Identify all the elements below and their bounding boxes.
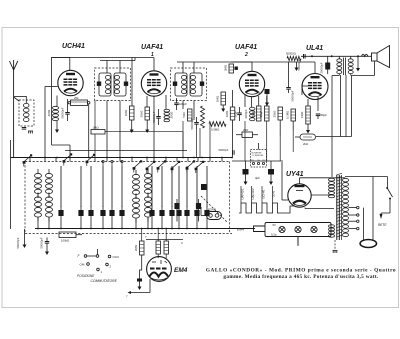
ground arrow UCH41 cathode [56,121,58,130]
power transformer core [336,175,338,240]
svg-text:50Ω: 50Ω [182,112,186,117]
svg-text:UAF41: UAF41 [141,44,163,51]
wire drop 2 [80,166,82,207]
coil L1 lower [35,197,42,201]
trimmer capacitor 11 [184,210,189,216]
AVC partial line [65,150,187,152]
ground arrow UAF41-1 b [146,120,148,130]
band switch contact 9 [195,168,198,171]
resistor box EM4 a [156,241,161,254]
speaker [372,53,378,61]
trimmer capacitor extra a [174,203,179,209]
svg-text:UL41: UL41 [272,190,276,197]
wire UAF41 grid top [135,57,154,59]
svg-text:1MΩ: 1MΩ [216,96,220,102]
power transformer primary upper [329,178,335,181]
band switch contact 3 [86,161,89,164]
band switch contact 6 [157,167,160,170]
output transformer T3 [337,59,342,62]
band switch contact 2 [63,160,66,163]
svg-text:UCH41: UCH41 [62,43,85,50]
lamp 1 [279,226,285,232]
heater tap wires [240,186,242,203]
svg-text:GALLO «CONDOR» - Mod. PRIMO pr: GALLO «CONDOR» - Mod. PRIMO prima e seco… [206,268,396,274]
voice coil [362,54,368,56]
wire cross e [266,121,268,161]
ground arrow UAF41-1 a [131,120,133,130]
svg-text:1MΩ: 1MΩ [124,110,128,116]
wire drop 9 [171,166,173,207]
wire drop 3 [90,166,92,207]
bus stubs [29,158,31,162]
resistor 30k UAF41-1 [145,107,150,120]
trimmer capacitor 12 [194,210,199,216]
wire UY41 plate top [299,178,301,184]
wire UL41 grid [231,61,315,63]
resistor 1M UAF41-1 [130,106,135,120]
trimmer capacitor 4 [100,210,105,216]
resistor box UAF41-2 c [265,106,270,121]
coil 300ohm UCH41 cathode [53,106,59,109]
capacitor 50uF UAF41-2 [237,112,242,114]
wire vertical x332 [331,76,333,178]
svg-text:50µF: 50µF [234,110,238,117]
wire T2 bottom continuation [182,121,184,158]
lamp 2 [295,226,301,232]
wire drop 13 [206,166,208,207]
bus wire y228 [35,228,255,230]
resistor 25k under UCH41 [71,100,88,106]
wire mains switch down [389,199,391,214]
wire fono [201,215,207,217]
svg-text:UAF41: UAF41 [235,44,257,51]
wire T2 tops [177,61,200,63]
heater chain meander [239,203,295,213]
switch pad circle 3 [121,160,123,162]
resistor zigzag 0.5M vertical [201,106,205,128]
coil 300ohm UAF41-1 [164,109,170,112]
switch pad circle 1 [102,160,104,162]
band switch contact 5 [146,168,149,171]
wire lamp down [297,237,299,247]
capacitor 50000pF bus [45,241,50,243]
ground arrow UAF41-2 grid [222,105,224,109]
resistor 140ohm UL41 [306,106,311,124]
wire UCH41 cathode drops [56,96,58,107]
wire cross c [209,124,211,158]
wire EM4 bottom [149,279,151,293]
wire plate HT line [301,55,371,57]
trimmer capacitor 2 [78,210,83,216]
wire drop 1 [60,166,62,207]
mains switch [387,177,389,188]
wire UL41 cathode [307,99,309,106]
switch shaft diagonal [201,196,227,222]
switch shaft dash left [24,162,26,234]
svg-text:gamme. Media frequenza a 465 k: gamme. Media frequenza a 465 kc. Potenza… [223,274,379,280]
wire drop 10 [178,166,180,207]
wire plug right [372,177,374,241]
svg-text:50000pF: 50000pF [291,90,295,101]
wire cross a [94,100,96,158]
tube UY41 [288,184,311,207]
transformer centerline ground [334,240,336,250]
wire grid UAF41-2 [200,61,252,63]
svg-text:2: 2 [244,52,248,58]
wire cross g [292,130,294,152]
resistor 10k horizontal [91,130,105,135]
resistor 2M EM4 [140,241,145,255]
tube UCH41 [58,70,83,95]
resistor 0.5M horizontal [209,122,226,127]
svg-text:300Ω: 300Ω [47,110,51,117]
svg-text:50000pF: 50000pF [152,111,156,122]
antenna filter box [19,100,34,126]
switch shaft dash top [25,161,230,163]
band switch contact 4 [133,167,136,170]
wire drop 6 [121,166,123,207]
svg-text:DI TENSIONE: DI TENSIONE [253,155,265,157]
svg-text:100pF: 100pF [179,102,187,106]
wire horizontal y136 [316,136,352,138]
resistor 1M UAF41-2 grid [221,92,226,105]
coil L2 lower [46,197,53,201]
svg-text:POSIZIONE: POSIZIONE [77,274,95,278]
wire vertical x351 [351,75,353,137]
svg-text:6V: 6V [273,223,277,227]
svg-text:RETE: RETE [378,223,387,227]
ground arrow left bus [24,229,26,245]
power transformer primary lower [329,225,335,228]
resistor 50ohm T2 [188,109,193,121]
ground arrow 8uF [266,94,268,103]
svg-text:25kΩ: 25kΩ [273,111,277,118]
wire top bus UCH41-UAF41 [52,57,136,59]
wire UY41 heater right [311,194,331,196]
trimmer capacitor 1 [58,210,63,216]
junction dots HT [311,55,313,57]
wire vertical left of UCH41 [51,70,53,145]
wire UCH41 left lead [45,86,58,88]
svg-text:0,5MΩ: 0,5MΩ [211,128,219,132]
wire antenna to filter [14,97,19,101]
lamp 3 [311,226,317,232]
IF transformer T2 [171,68,207,101]
wire drop 4 [102,166,104,207]
resistor 100k [59,232,76,238]
trimmer capacitor 6 [119,210,124,216]
capacitor antenna filter [22,127,27,129]
transformer taps [349,207,357,209]
voltage selector box [251,150,267,168]
wire UAF41-1 bottom drops [131,58,133,107]
ground comb antenna filter [28,130,33,132]
wire plug left [363,208,365,240]
svg-text:UY41: UY41 [286,171,304,178]
svg-text:UL41: UL41 [306,45,323,52]
svg-text:OC3: OC3 [113,255,120,259]
ground arrow output [357,56,359,68]
tube EM4 internals [147,257,172,282]
svg-text:10kΩ: 10kΩ [93,126,99,130]
bus wire main [11,157,233,159]
trimmer capacitor 9 [169,210,174,216]
trimmer capacitor 7 [149,210,154,216]
capacitor 50000pF UCH41 [65,112,70,114]
svg-text:2kΩ: 2kΩ [303,142,308,146]
wire drop 11 [186,166,188,207]
svg-text:25k: 25k [74,96,79,100]
capacitor EM4 left [137,279,142,282]
svg-text:50µF: 50µF [321,113,328,117]
svg-text:3MΩ: 3MΩ [224,65,228,71]
svg-text:50000pF: 50000pF [40,237,44,248]
wire cross b [199,128,201,158]
svg-text:50000pF: 50000pF [16,237,20,248]
wire T1 bottoms [106,101,108,158]
wire T2 bottoms [182,101,184,110]
band switch contact 8 [186,167,189,170]
svg-text:0,2a: 0,2a [271,233,277,237]
switch shaft vertical [229,162,231,234]
svg-text:50000pF: 50000pF [219,149,229,152]
resistor 1M UAF41-2 [230,107,235,120]
capacitor 50000pF T2 [194,122,199,124]
svg-text:1MΩ: 1MΩ [225,111,229,117]
wire UAF41-2 col a [232,90,234,107]
coil 300 UAF41-2 [250,107,256,110]
band switch contact 1 [23,161,26,164]
svg-text:30kΩ: 30kΩ [140,111,144,118]
tube UAF41 first [141,71,166,96]
wire heater top [232,160,283,162]
ground arrow 50000ohm [296,62,298,68]
wire cross f [279,137,281,162]
svg-text:EM4: EM4 [174,267,188,274]
black blob on shaft [201,184,207,190]
wire drop 5 [111,166,113,207]
dial lamp strip [254,226,266,232]
svg-text:160: 160 [257,160,260,162]
svg-text:COMMUTATORE: COMMUTATORE [91,279,118,283]
svg-text:OM: OM [80,263,85,267]
wire cross d [244,121,246,161]
bus2 junction dots [37,228,39,230]
tube UL41 [302,74,328,100]
resistor 25ohm horizontal [242,132,253,138]
antenna filter coil [24,103,30,107]
wire drop 8 [161,166,163,207]
mains plug [360,240,376,248]
switch shaft dash line 2 [25,233,232,235]
svg-text:FONO: FONO [208,208,217,212]
wire vertical x340 [340,75,342,137]
wire vertical x346 [345,75,347,137]
bus junction dots [44,157,46,159]
wire drop 12 [196,166,198,207]
resistor 3M UAF41-2 grid [229,64,234,73]
svg-text:220: 220 [251,160,254,162]
wire T1 tops [100,60,135,62]
ground arrow 50000pF bus [46,247,48,252]
svg-text:50µF: 50µF [251,110,255,117]
capacitor 50000pF coupling [286,87,291,89]
coil L3 lower [133,198,140,202]
antenna [13,70,15,158]
svg-text:8µF: 8µF [258,91,263,95]
wire UL41 misc [302,85,308,87]
capacitor black heater a [245,161,247,169]
resistor 0.1M UL41 grid [291,109,296,121]
wire UCH41 top rect [52,58,70,71]
svg-text:50000pF: 50000pF [190,118,194,129]
svg-text:2MΩ: 2MΩ [134,245,138,251]
svg-text:20000pF: 20000pF [320,62,324,73]
svg-text:300Ω: 300Ω [170,112,174,119]
wire mains top [345,176,388,178]
svg-text:1000pF: 1000pF [244,109,248,119]
wire UAF41-2 bottom drops [244,95,246,107]
resistor box EM4 b [164,241,169,254]
svg-text:100kΩ: 100kΩ [61,239,69,243]
capacitor series 50000pF [303,54,305,59]
svg-text:140Ω: 140Ω [300,112,304,119]
trimmer capacitor 8 [159,210,164,216]
trimmer capacitor 13 [204,210,209,216]
switch pad circle 2 [111,160,113,162]
arrow line EM4 [146,239,183,241]
power transformer secondary [343,178,349,182]
wire drop 7 [151,166,153,207]
capacitor 100pF UAF41-1 [174,102,179,104]
capacitor black heater b [270,161,272,169]
potentiometer 2k [300,134,316,140]
svg-text:0,1MΩ: 0,1MΩ [286,111,290,119]
trimmer capacitor 10 [176,210,181,216]
svg-text:125: 125 [262,160,265,162]
svg-text:50000Ω: 50000Ω [286,52,296,56]
trimmer capacitor 3 [88,210,93,216]
tube UAF41 second [239,71,264,96]
capacitor 50000pF UAF41-1 [156,116,161,118]
capacitor 8uF black [265,89,270,94]
capacitor 50000pF mid [232,150,234,155]
coil L3 upper [133,174,140,178]
wire antenna down [10,140,12,229]
coil L4 lower [145,197,152,201]
trimmer capacitor extra b [196,203,201,209]
resistor 50000ohm zigzag [287,56,301,60]
IF transformer T1 [95,68,131,101]
capacitor 20000pF [325,63,330,70]
wire UY41 left [281,162,283,200]
svg-text:25Ω: 25Ω [243,128,248,132]
band switch contact 7 [171,168,174,171]
capacitor 50uF UL41 [316,113,321,115]
resistor 25k decoupling [278,107,283,120]
coil L4 upper [145,173,152,177]
svg-text:50000pF: 50000pF [297,59,301,70]
coil L2 upper [46,173,53,177]
coil L1 upper [35,173,42,177]
wire row 136 [279,120,281,137]
svg-text:3µF: 3µF [255,176,260,180]
resistor box UAF41-2 b [257,106,262,121]
svg-text:EM4: EM4 [237,228,244,232]
svg-text:50000pF: 50000pF [61,107,65,118]
wire coil bottoms [37,218,39,229]
ground arrow UL41 cathode [307,124,309,131]
trimmer capacitor 5 [109,210,114,216]
svg-text:50µF: 50µF [259,110,263,117]
